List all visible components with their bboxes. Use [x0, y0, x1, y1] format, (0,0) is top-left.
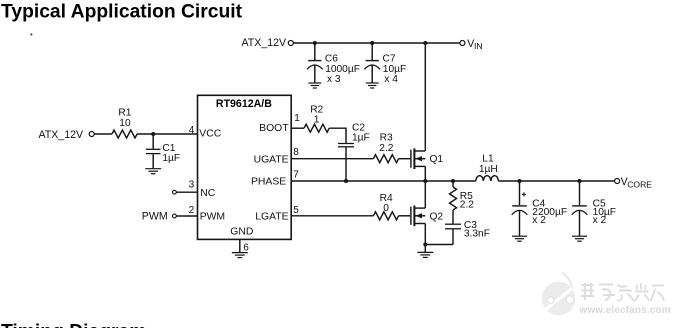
capacitor C4 — [512, 181, 528, 236]
svg-text:3: 3 — [189, 179, 195, 190]
wire NC — [176, 191, 197, 193]
svg-text:1µF: 1µF — [352, 133, 370, 144]
wire C3 return — [425, 244, 453, 246]
svg-text:1: 1 — [294, 113, 300, 124]
svg-text:GND: GND — [230, 227, 253, 238]
ground (C4) — [512, 236, 527, 241]
svg-text:ATX_12V: ATX_12V — [39, 129, 84, 141]
ground (IC GND) — [232, 253, 248, 258]
wire R3 to Q1 gate — [399, 158, 411, 160]
svg-text:NC: NC — [200, 188, 216, 199]
resistor R2 — [304, 124, 329, 132]
wire Q2 source — [424, 224, 426, 253]
watermark logo — [542, 273, 576, 316]
svg-text:6: 6 — [243, 242, 249, 253]
svg-text:0: 0 — [383, 203, 389, 214]
svg-text:1µH: 1µH — [479, 164, 498, 175]
svg-text:3.3nF: 3.3nF — [464, 229, 490, 240]
ground (Q2) — [417, 252, 433, 257]
label C4 value — [532, 198, 567, 226]
terminal VCORE — [615, 179, 620, 184]
svg-text:R4: R4 — [380, 193, 393, 204]
svg-text:IN: IN — [474, 41, 483, 51]
node junction C5 — [578, 179, 582, 183]
resistor R1 — [112, 130, 137, 138]
wire PWM — [176, 215, 197, 217]
capacitor C5 — [572, 181, 588, 236]
wire Q1 source — [424, 166, 426, 181]
node junction R5 — [451, 179, 455, 183]
svg-text:8: 8 — [293, 147, 299, 158]
wire Q2 drain — [424, 181, 426, 208]
svg-text:x 3: x 3 — [327, 74, 341, 85]
node junction Q2 source / C3 — [423, 243, 427, 247]
wire GND pin — [239, 239, 241, 252]
svg-text:4: 4 — [189, 125, 195, 136]
polarity + (C4) — [522, 192, 526, 196]
svg-text:1µF: 1µF — [162, 153, 180, 164]
svg-text:x 4: x 4 — [384, 74, 398, 85]
capacitor C2 — [338, 144, 354, 182]
svg-text:VCC: VCC — [199, 129, 221, 140]
node junction Q1/Q2 — [423, 179, 427, 183]
wire R2 to C2 — [329, 128, 346, 143]
svg-text:Timing Diagram: Timing Diagram — [1, 321, 146, 328]
terminal ATX_12V left — [89, 132, 94, 137]
svg-text:LGATE: LGATE — [255, 212, 288, 223]
capacitor C7 — [364, 43, 380, 83]
svg-text:x 2: x 2 — [532, 215, 546, 226]
svg-text:www.elecfans.com: www.elecfans.com — [579, 305, 671, 316]
node junction C2/PHASE — [344, 179, 348, 183]
svg-text:PWM: PWM — [142, 210, 168, 222]
ground (C5) — [572, 236, 587, 241]
wire R4 to Q2 gate — [399, 215, 411, 217]
svg-text:2.2: 2.2 — [379, 143, 393, 154]
wire VCORE rail — [498, 180, 614, 182]
op-amp U1 RT9612A/B box — [198, 95, 292, 239]
svg-text:BOOT: BOOT — [259, 123, 289, 134]
node junction C1 — [151, 132, 155, 136]
svg-text:PWM: PWM — [200, 212, 225, 223]
wire UGATE — [291, 158, 373, 160]
svg-text:1: 1 — [314, 114, 320, 125]
resistor R5 — [450, 181, 457, 224]
terminal VIN — [460, 41, 465, 46]
svg-text:R3: R3 — [380, 133, 393, 144]
svg-text:2.2: 2.2 — [460, 200, 474, 211]
svg-text:PHASE: PHASE — [251, 177, 286, 188]
node junction C6 — [313, 41, 317, 45]
watermark chinese text — [581, 283, 664, 301]
svg-text:Q2: Q2 — [430, 212, 444, 223]
ground (C1) — [145, 169, 161, 174]
wire LGATE — [291, 215, 373, 217]
wire R1 to VCC — [137, 133, 197, 135]
label C5 value — [593, 198, 616, 226]
svg-text:5: 5 — [293, 205, 299, 216]
terminal PWM — [173, 214, 177, 218]
node junction C7 — [370, 41, 374, 45]
terminal ATX_12V top — [288, 41, 293, 46]
wire BOOT — [291, 127, 304, 129]
svg-text:10: 10 — [119, 118, 131, 129]
svg-text:Typical Application Circuit: Typical Application Circuit — [1, 1, 243, 22]
svg-text:2: 2 — [189, 205, 195, 216]
capacitor C6 — [307, 43, 323, 83]
svg-text:Q1: Q1 — [430, 154, 444, 165]
resistor R3 — [373, 155, 398, 163]
wire PHASE — [291, 180, 476, 182]
ground (C6) — [308, 83, 321, 88]
label C7 value — [383, 54, 407, 86]
wire Q1 drain vertical — [424, 43, 426, 151]
terminal NC pin — [173, 190, 177, 194]
wire to R1 — [94, 133, 112, 135]
ground (C7) — [366, 83, 379, 88]
resistor R4 — [373, 212, 398, 220]
stray dot — [31, 34, 33, 36]
inductor L1 — [476, 176, 499, 181]
svg-text:CORE: CORE — [627, 180, 652, 190]
svg-text:x 2: x 2 — [593, 215, 607, 226]
node junction Q1 drain — [423, 41, 427, 45]
svg-text:RT9612A/B: RT9612A/B — [216, 98, 272, 110]
transistor Q2 — [411, 206, 425, 227]
transistor Q1 — [411, 148, 425, 169]
svg-text:UGATE: UGATE — [254, 154, 289, 165]
label C6 value — [325, 54, 360, 86]
node junction C4 — [518, 179, 522, 183]
wire top rail — [293, 42, 459, 44]
svg-text:7: 7 — [293, 170, 299, 181]
capacitor C3 — [445, 224, 461, 244]
svg-text:ATX_12V: ATX_12V — [242, 37, 287, 49]
capacitor C1 — [146, 134, 161, 169]
